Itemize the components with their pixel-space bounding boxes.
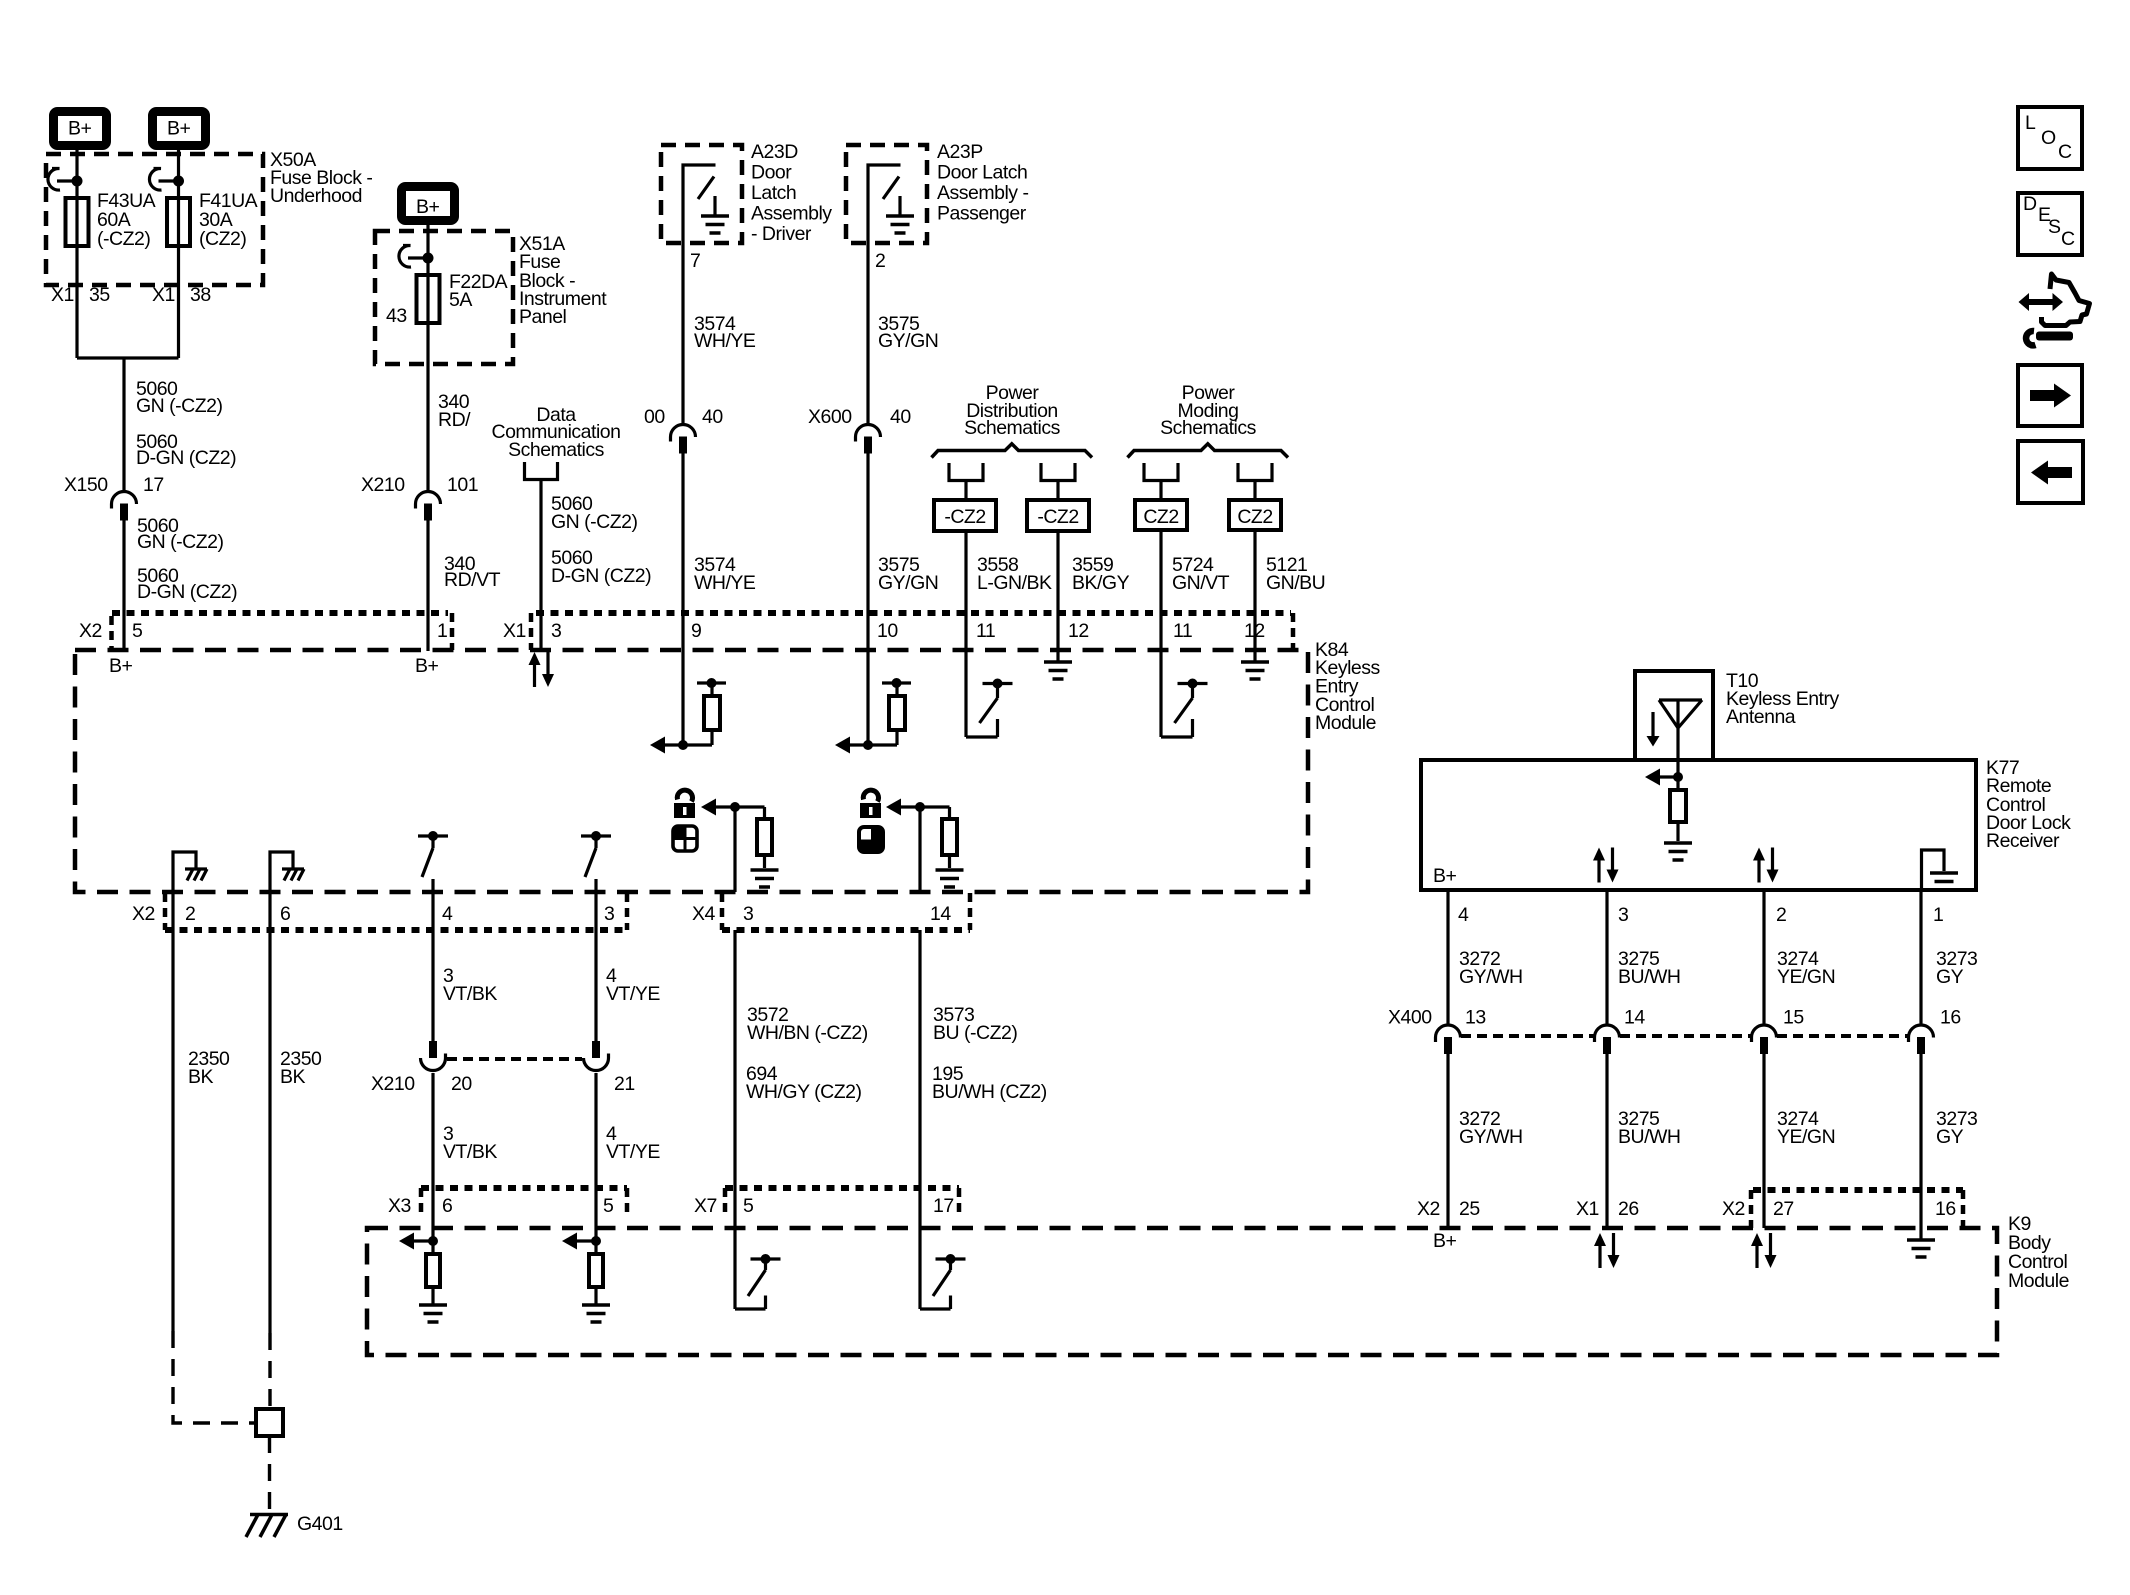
driver output symbol pin 9 (681, 651, 684, 745)
svg-text:00: 00 (644, 406, 665, 428)
svg-text:WH/YE: WH/YE (694, 572, 756, 594)
connector X400 body dashes 13-14 (1461, 1034, 1594, 1038)
svg-text:WH/YE: WH/YE (694, 330, 756, 352)
switch inside A23D (683, 165, 716, 243)
connector hook at F43UA feed (48, 168, 83, 190)
svg-text:B+: B+ (415, 655, 439, 677)
internal switch pin 11 (second) (1159, 651, 1162, 737)
svg-text:L: L (2025, 112, 2036, 134)
connector X400 body dashes 14-15 (1620, 1034, 1751, 1038)
svg-text:BU (-CZ2): BU (-CZ2) (933, 1022, 1017, 1044)
svg-text:B+: B+ (68, 118, 92, 140)
wire 3272 from X400 to K9 (1446, 1054, 1449, 1228)
svg-text:X1: X1 (152, 284, 175, 306)
splice block (256, 1409, 283, 1436)
unlock icon (passenger) (860, 790, 881, 818)
svg-text:YE/GN: YE/GN (1777, 1126, 1835, 1148)
wire 3272 from K77 pin 4 (1446, 890, 1449, 1025)
svg-text:CZ2: CZ2 (1237, 506, 1272, 528)
connector tick right of pin 5 (625, 1188, 630, 1218)
svg-text:A23D: A23D (751, 141, 798, 163)
svg-text:38: 38 (190, 284, 211, 306)
svg-text:17: 17 (933, 1195, 954, 1217)
wire 3 VT/BK from X210 to K9 (431, 1073, 434, 1241)
internal switch below pin 17 (918, 1228, 921, 1309)
input symbol below pin 5 (562, 1233, 610, 1323)
svg-text:D-GN (CZ2): D-GN (CZ2) (137, 581, 237, 603)
off-page leg 5724 (1144, 463, 1178, 481)
svg-text:16: 16 (1935, 1198, 1956, 1220)
connector hook at F41UA feed (149, 168, 184, 190)
svg-text:11: 11 (976, 620, 995, 642)
unlock icon (driver) (674, 790, 695, 818)
svg-text:C: C (2061, 228, 2075, 250)
svg-text:X2: X2 (1722, 1198, 1745, 1220)
svg-text:6: 6 (280, 903, 290, 925)
svg-text:YE/GN: YE/GN (1777, 966, 1835, 988)
svg-text:Door: Door (751, 162, 792, 184)
driver output symbol pin 10 (866, 651, 869, 745)
svg-text:2: 2 (875, 250, 885, 272)
svg-text:X210: X210 (361, 474, 405, 496)
K9 top connector strip dotted line (X3 part) (421, 1185, 627, 1191)
K84 top connector strip dotted line (X2 part) (112, 610, 448, 616)
connector tick right of pin 12 (1291, 613, 1296, 650)
connector tick X2 bottom (163, 893, 168, 930)
svg-text:Panel: Panel (519, 306, 567, 328)
svg-text:X400: X400 (1388, 1007, 1432, 1029)
svg-text:Assembly -: Assembly - (937, 182, 1028, 204)
svg-text:X7: X7 (694, 1195, 717, 1217)
wire 340 from X210 to K84 (426, 521, 429, 652)
svg-text:GN (-CZ2): GN (-CZ2) (136, 395, 223, 417)
door quadrant icon (passenger) (859, 827, 883, 852)
svg-text:BU/WH: BU/WH (1618, 966, 1681, 988)
icon box DESC (2018, 193, 2082, 255)
wire 2350 BK from pin 2 (171, 892, 174, 1331)
svg-text:D-GN (CZ2): D-GN (CZ2) (551, 565, 651, 587)
antenna receive arrow (1651, 712, 1654, 737)
connector tick right of pin 17 (957, 1188, 962, 1218)
svg-text:4: 4 (442, 903, 453, 925)
wire 3 VT/BK from pin 4 to X210 (431, 892, 434, 1041)
K84 top connector strip dotted line (X1 part) (536, 610, 1291, 616)
svg-text:21: 21 (614, 1073, 635, 1095)
brace Power Moding (1128, 444, 1289, 458)
svg-text:11: 11 (1173, 620, 1192, 642)
svg-text:- Driver: - Driver (751, 223, 812, 245)
connector tick right of pin 14 (968, 893, 973, 930)
svg-text:14: 14 (930, 903, 951, 925)
svg-text:40: 40 (702, 406, 723, 428)
svg-text:9: 9 (691, 620, 701, 642)
wire 3574 from A23D to X600 (681, 243, 684, 424)
svg-text:Door Latch: Door Latch (937, 162, 1027, 184)
wire 5060 data link to K84 (539, 480, 542, 652)
internal ground hook K77 pin 1 (1922, 850, 1945, 888)
serial arrows K77 pin 2 (1753, 848, 1779, 883)
brace Power Distribution (932, 444, 1093, 458)
svg-text:25: 25 (1459, 1198, 1480, 1220)
ground inside A23D (701, 216, 729, 233)
wire 2350 BK from pin 6 (268, 892, 271, 1333)
antenna input arrow (1660, 775, 1678, 778)
svg-text:G401: G401 (297, 1513, 343, 1535)
icon door schematic reference (2019, 274, 2090, 345)
svg-text:L-GN/BK: L-GN/BK (977, 572, 1052, 594)
svg-text:20: 20 (451, 1073, 472, 1095)
svg-text:7: 7 (690, 250, 700, 272)
wire 3558 to K84 (964, 531, 967, 651)
svg-text:GY/GN: GY/GN (878, 330, 938, 352)
svg-text:O: O (2041, 127, 2056, 149)
svg-text:GY/WH: GY/WH (1459, 1126, 1523, 1148)
fuse F43UA (66, 198, 89, 246)
fuse F41UA (167, 198, 190, 246)
svg-text:-CZ2: -CZ2 (944, 506, 985, 528)
svg-text:BK/GY: BK/GY (1072, 572, 1130, 594)
svg-text:GN/BU: GN/BU (1266, 572, 1325, 594)
off-page leg 3559 (1041, 463, 1075, 481)
svg-text:X600: X600 (808, 406, 852, 428)
svg-text:15: 15 (1783, 1007, 1804, 1029)
svg-text:B+: B+ (1433, 865, 1457, 887)
svg-text:B+: B+ (167, 118, 191, 140)
svg-text:GN (-CZ2): GN (-CZ2) (137, 531, 224, 553)
svg-text:GN/VT: GN/VT (1172, 572, 1230, 594)
svg-text:S: S (2048, 216, 2061, 238)
off-page bracket for data link (525, 462, 558, 480)
internal ground pin 12 (second) (1253, 651, 1256, 662)
svg-text:X2: X2 (79, 620, 102, 642)
antenna resistor ground (1664, 843, 1692, 860)
svg-text:5A: 5A (449, 289, 472, 311)
svg-text:14: 14 (1624, 1007, 1645, 1029)
svg-text:43: 43 (386, 305, 407, 327)
svg-text:16: 16 (1940, 1007, 1961, 1029)
connector tick X1 (529, 613, 534, 650)
svg-text:3: 3 (743, 903, 753, 925)
serial arrows K77 pin 3 (1593, 848, 1619, 883)
svg-text:X1: X1 (51, 284, 74, 306)
svg-text:GN (-CZ2): GN (-CZ2) (551, 511, 638, 533)
svg-text:D-GN (CZ2): D-GN (CZ2) (136, 447, 236, 469)
wire 3559 to K84 (1056, 531, 1059, 651)
wire F41UA output (177, 246, 180, 358)
internal ground pin 12 (first) (1056, 651, 1059, 662)
internal ground K9 pin 16 (1919, 1228, 1922, 1239)
svg-text:WH/BN (-CZ2): WH/BN (-CZ2) (747, 1022, 868, 1044)
off-page leg 5121 (1238, 463, 1272, 481)
svg-text:GY/GN: GY/GN (878, 572, 938, 594)
svg-text:B+: B+ (416, 196, 440, 218)
svg-text:2: 2 (185, 903, 195, 925)
connector tick X3 (419, 1188, 424, 1218)
svg-text:WH/GY (CZ2): WH/GY (CZ2) (746, 1081, 861, 1103)
svg-text:13: 13 (1465, 1007, 1486, 1029)
wire leg to CZ2 box 4 (1253, 481, 1256, 501)
svg-text:5: 5 (743, 1195, 754, 1217)
input symbol below pin 6 (399, 1233, 447, 1323)
internal chassis ground pin X2-2 (173, 852, 196, 892)
B+ supply 2 (153, 112, 206, 146)
wire leg to -CZ2 box 1 (964, 481, 967, 501)
svg-text:Passenger: Passenger (937, 203, 1027, 225)
svg-text:6: 6 (442, 1195, 452, 1217)
connector tick right of pin 3 bottom (625, 893, 630, 930)
connector tick X7 (723, 1188, 728, 1218)
svg-text:BK: BK (188, 1066, 214, 1088)
K84 module outline (75, 650, 1308, 892)
wire 3575 from X600 to K84 (866, 454, 869, 652)
antenna symbol (1659, 700, 1702, 777)
svg-text:X1: X1 (1576, 1198, 1599, 1220)
internal switch below X7-5 (733, 1228, 736, 1309)
svg-text:BK: BK (280, 1066, 306, 1088)
svg-text:Schematics: Schematics (1160, 417, 1257, 439)
wire 5121 to K84 (1253, 530, 1256, 651)
svg-text:Receiver: Receiver (1986, 830, 2060, 852)
wire 3273 from K77 pin 1 (1919, 890, 1922, 1025)
ground G401 (246, 1515, 288, 1538)
svg-text:1: 1 (1933, 904, 1943, 926)
svg-text:(CZ2): (CZ2) (199, 228, 246, 250)
svg-text:Schematics: Schematics (964, 417, 1061, 439)
svg-text:X4: X4 (692, 903, 716, 925)
unlock output symbol pin X4-3 (701, 799, 779, 888)
svg-text:Module: Module (2008, 1270, 2069, 1292)
svg-text:D: D (2023, 193, 2037, 215)
svg-text:VT/YE: VT/YE (606, 1141, 660, 1163)
wire 5724 to K84 (1159, 530, 1162, 651)
code box CZ2 (3) (1135, 500, 1187, 530)
K9 module outline (367, 1228, 1997, 1355)
svg-text:17: 17 (143, 474, 164, 496)
svg-text:B+: B+ (1433, 1230, 1457, 1252)
antenna load resistor (1676, 777, 1679, 841)
svg-text:A23P: A23P (937, 141, 983, 163)
wire 3274 from K77 pin 2 (1762, 890, 1765, 1025)
door quadrant icon (driver) (673, 826, 697, 851)
internal chassis ground pin 6 (270, 852, 293, 892)
svg-text:X2: X2 (132, 903, 155, 925)
icon box LOC (2018, 107, 2082, 169)
wire 4 VT/YE from X210 to K9 (594, 1073, 597, 1241)
code box -CZ2 (1) (934, 500, 996, 531)
wire B+ to fuse F41UA (177, 150, 180, 198)
wire 3572/694 from X4-3 to K9 (733, 930, 736, 1228)
wire 3275 from K77 pin 3 (1605, 890, 1608, 1025)
fuse F22DA (417, 275, 440, 323)
wire leg to -CZ2 box 2 (1056, 481, 1059, 501)
svg-text:X210: X210 (371, 1073, 415, 1095)
svg-text:12: 12 (1244, 620, 1265, 642)
dashed wire 2350 to splice (vertical) (268, 1333, 271, 1409)
svg-text:VT/BK: VT/BK (443, 1141, 497, 1163)
svg-text:3: 3 (604, 903, 614, 925)
connector X210 body dashes (447, 1057, 582, 1061)
svg-text:VT/BK: VT/BK (443, 983, 497, 1005)
serial arrows K9 pin 26 (1594, 1233, 1620, 1268)
wire 4 VT/YE from pin 3 to X210 (594, 892, 597, 1041)
svg-text:Module: Module (1315, 712, 1376, 734)
svg-text:Underhood: Underhood (270, 185, 362, 207)
svg-text:GY: GY (1936, 1126, 1964, 1148)
code box CZ2 (4) (1229, 500, 1281, 530)
antenna input node (1673, 772, 1683, 782)
K9 top connector strip dotted line (X7 part) (725, 1185, 959, 1191)
wire 340 down to X210 (426, 323, 429, 491)
door latch A23P outline (846, 145, 927, 243)
connector hook at F22DA feed (399, 245, 434, 267)
svg-text:C: C (2058, 141, 2072, 163)
connector tick X2-27 (1749, 1190, 1754, 1228)
serial arrows K9 pin 27 (1751, 1233, 1777, 1268)
B+ supply 3 (402, 187, 455, 221)
svg-text:Assembly: Assembly (751, 203, 832, 225)
svg-text:5: 5 (603, 1195, 614, 1217)
svg-text:X150: X150 (64, 474, 108, 496)
wire 3574 from X600 to K84 (681, 454, 684, 652)
svg-text:35: 35 (89, 284, 110, 306)
ground inside A23P (886, 216, 914, 233)
wire B+ to fuse F43UA (75, 150, 78, 198)
svg-text:Latch: Latch (751, 182, 796, 204)
svg-text:26: 26 (1618, 1198, 1639, 1220)
internal switch above pin 3 (581, 831, 611, 877)
wire 5060 down to X150 (122, 358, 125, 491)
svg-text:VT/YE: VT/YE (606, 983, 660, 1005)
svg-text:X3: X3 (388, 1195, 411, 1217)
svg-text:BU/WH: BU/WH (1618, 1126, 1681, 1148)
svg-text:X2: X2 (1417, 1198, 1440, 1220)
svg-text:GY/WH: GY/WH (1459, 966, 1523, 988)
off-page leg 3558 (949, 463, 983, 481)
svg-text:5: 5 (132, 620, 143, 642)
fuse block X51A outline (375, 231, 513, 364)
svg-text:4: 4 (1458, 904, 1469, 926)
K77 receiver box (1421, 760, 1976, 890)
svg-text:2: 2 (1776, 904, 1786, 926)
svg-text:-CZ2: -CZ2 (1037, 506, 1078, 528)
connector tick right of pin 1 (450, 613, 455, 650)
icon box back arrow (2018, 441, 2083, 503)
svg-text:CZ2: CZ2 (1143, 506, 1178, 528)
wire 3273 from X400 to K9 (1919, 1054, 1922, 1228)
svg-text:BU/WH (CZ2): BU/WH (CZ2) (932, 1081, 1047, 1103)
svg-text:GY: GY (1936, 966, 1964, 988)
svg-text:40: 40 (890, 406, 911, 428)
internal switch pin 11 (first) (964, 651, 967, 737)
svg-text:Antenna: Antenna (1726, 706, 1796, 728)
svg-text:(-CZ2): (-CZ2) (97, 228, 150, 250)
icon box forward arrow (2018, 365, 2082, 426)
wire 3274 from X400 to K9 (1762, 1054, 1765, 1228)
svg-text:RD/: RD/ (438, 409, 471, 431)
K84 bottom connector strip dotted line (X2 part) (165, 927, 627, 933)
B+ supply 1 (54, 112, 107, 146)
K9 right connector strip dotted line (1753, 1187, 1963, 1193)
wire B+ to fuse F22DA (426, 223, 429, 275)
svg-text:X1: X1 (503, 620, 526, 642)
svg-text:RD/VT: RD/VT (444, 569, 501, 591)
code box -CZ2 (2) (1027, 500, 1089, 531)
connector tick right of pin 16 (1961, 1190, 1966, 1228)
connector tick X2 (109, 616, 114, 648)
wire 3275 from X400 to K9 (1605, 1054, 1608, 1228)
unlock output symbol pin 14 (886, 799, 964, 888)
wire 5060 from X150 to K84 (122, 521, 125, 652)
svg-text:3: 3 (551, 620, 561, 642)
svg-text:27: 27 (1773, 1198, 1794, 1220)
wire leg to CZ2 box 3 (1159, 481, 1162, 501)
svg-text:10: 10 (877, 620, 898, 642)
wire 3575 from A23P to X600 (866, 243, 869, 424)
switch inside A23P (868, 165, 901, 243)
svg-text:101: 101 (447, 474, 478, 496)
svg-text:3: 3 (1618, 904, 1628, 926)
connector X400 body dashes 15-16 (1777, 1034, 1908, 1038)
door latch A23D outline (661, 145, 742, 243)
internal switch above pin 4 (418, 831, 448, 877)
connector tick X4 (720, 893, 725, 930)
svg-text:Schematics: Schematics (508, 439, 605, 461)
svg-text:1: 1 (437, 620, 447, 642)
wire junction of fuse outputs (77, 356, 179, 359)
svg-text:12: 12 (1068, 620, 1089, 642)
svg-text:B+: B+ (109, 655, 133, 677)
K84 bottom connector strip dotted line (X4 part) (722, 927, 970, 933)
dashed wire splice to G401 (268, 1436, 271, 1513)
dashed wire 2350 to splice (173, 1331, 256, 1423)
wire 3573/195 from pin 14 to K9 (918, 930, 921, 1228)
fuse block X50A outline (46, 154, 263, 285)
serial data arrows at pin 3 (529, 652, 555, 687)
antenna T10 box (1635, 671, 1713, 760)
wire F43UA output (75, 246, 78, 358)
